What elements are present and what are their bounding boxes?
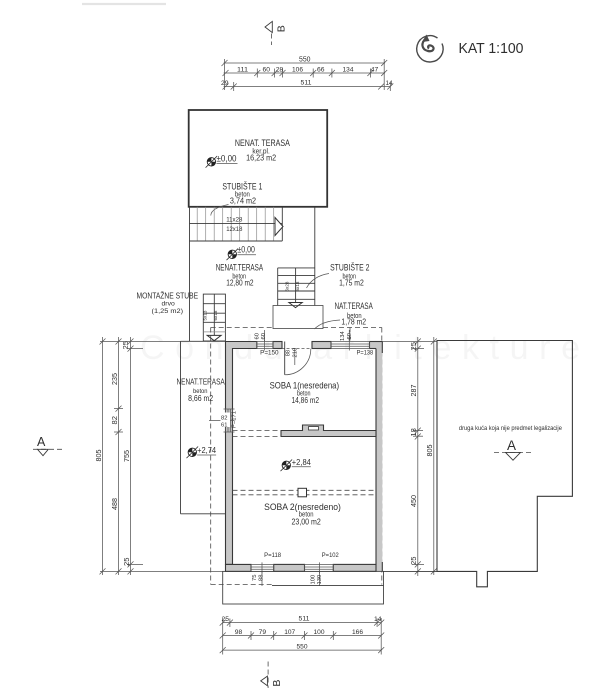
section marker A left [33,435,62,456]
svg-text:5x13: 5x13 [203,310,208,320]
svg-text:88: 88 [259,575,265,581]
door swing arc [285,349,311,375]
svg-text:8,66 m2: 8,66 m2 [188,394,213,403]
svg-text:82: 82 [221,415,227,421]
left dimension line 25 755 25 [128,337,134,575]
svg-text:18: 18 [411,428,418,437]
north symbol [417,35,443,63]
left wall window P=171 [209,409,235,432]
svg-text:16,23 m2: 16,23 m2 [246,153,276,163]
bottom dimension row 550 [220,647,385,653]
svg-text:134: 134 [343,67,354,74]
svg-text:12,80 m2: 12,80 m2 [226,278,254,288]
svg-text:A: A [507,438,516,453]
svg-text:210: 210 [293,348,299,358]
svg-text:P=138: P=138 [357,350,374,357]
svg-text:5x28: 5x28 [285,281,290,291]
level mark +-0,00 upper rect [206,153,238,168]
svg-text:+2,84: +2,84 [292,457,311,467]
svg-text:±0,00: ±0,00 [217,153,237,164]
svg-text:134: 134 [340,331,346,341]
svg-text:25: 25 [411,556,418,565]
svg-text:287: 287 [411,384,418,396]
svg-text:1,78 m2: 1,78 m2 [341,317,366,327]
lower left terrace NENAT.TERASA 8,66 [181,341,226,514]
svg-text:61: 61 [221,422,227,428]
svg-text:14: 14 [386,80,393,87]
staircase 1 direction arrow [275,218,283,236]
svg-text:511: 511 [299,616,310,623]
svg-text:88: 88 [285,350,291,356]
left dimension line 805 [100,337,106,575]
top dimension row 29 511 14 [223,82,394,91]
svg-text:25: 25 [222,616,230,623]
svg-text:25: 25 [411,342,418,351]
svg-text:550: 550 [299,57,311,64]
leader to NAT.TERASA [315,320,341,329]
svg-text:14,86 m2: 14,86 m2 [292,395,320,405]
svg-text:3,74 m2: 3,74 m2 [230,196,257,206]
leader arc to staircase 1 [211,205,229,216]
svg-text:488: 488 [112,498,119,510]
svg-text:B: B [276,25,288,32]
svg-text:66: 66 [317,67,325,74]
svg-text:28: 28 [276,67,284,74]
svg-text:NENAT.TERASA: NENAT.TERASA [177,377,226,387]
montazne stube down arrow [207,335,221,340]
montazne stube stairs [203,294,225,341]
svg-text:+2,74: +2,74 [197,445,216,455]
svg-text:1,75 m2: 1,75 m2 [339,277,364,287]
middle wall chimney opening [309,427,319,430]
svg-text:P=118: P=118 [264,552,281,559]
middle terrace right boundary [314,207,316,306]
section marker B top [265,21,288,45]
svg-text:100: 100 [311,575,317,585]
svg-text:NENAT. TERASA: NENAT. TERASA [235,138,290,149]
bottom dimension row 98 79 107 100 166 [220,631,385,640]
svg-text:805: 805 [96,449,103,461]
level mark +-0,00 middle terrace [227,244,257,261]
svg-text:47: 47 [371,67,379,74]
svg-text:P=150: P=150 [260,350,279,357]
small box on dashed line [298,488,307,497]
NAT.TERASA rect [273,306,323,329]
svg-text:130: 130 [317,575,323,585]
svg-text:79: 79 [259,629,267,636]
top dimension row 550 [222,59,388,90]
middle terrace left boundary [189,241,191,341]
main building bottom wall [226,564,377,571]
svg-text:A: A [37,435,46,449]
bottom dimension row 25 511 14 [220,618,385,655]
watermark [140,329,580,367]
right dim extension line top [383,341,437,343]
dashed outline around main building [211,328,382,585]
svg-text:166: 166 [352,629,363,636]
svg-text:NENAT.TERASA: NENAT.TERASA [216,263,264,274]
svg-text:14: 14 [374,616,382,623]
svg-text:23,00 m2: 23,00 m2 [292,517,322,527]
inner step line below building [272,585,384,587]
window P=150 width dims 60 60 [264,330,266,342]
left dimension line 235 82 488 [114,337,123,575]
window P=138 width dims 134 60 [348,330,350,342]
window P=138 top [331,340,370,351]
stubiste 2 stairs [278,268,315,307]
svg-text:P=102: P=102 [322,552,339,559]
svg-text:5x18: 5x18 [295,281,300,291]
svg-text:60: 60 [347,333,353,339]
svg-text:111: 111 [237,67,248,74]
upper terrace rectangle NENAT. TERASA 16,23 [189,110,328,207]
leader to stubiste 2 [307,274,330,289]
svg-text:106: 106 [292,67,303,74]
svg-text:60: 60 [254,333,260,339]
svg-text:11x28: 11x28 [226,217,243,224]
middle wall solid part [281,425,376,437]
main building top wall [226,342,383,572]
svg-text:25: 25 [124,557,131,566]
staircase 1 treads [197,207,274,241]
svg-text:755: 755 [124,450,131,462]
middle wall dashed part [233,431,282,437]
window P=118 bottom [251,562,274,573]
svg-text:±0,00: ±0,00 [237,244,255,255]
terrace rect below building [223,571,384,604]
svg-text:12x18: 12x18 [226,226,243,233]
svg-text:450: 450 [411,495,418,507]
scan streak top [82,3,166,5]
window P=102 bottom [305,562,334,573]
svg-text:60: 60 [261,333,267,339]
svg-text:60: 60 [263,67,271,74]
svg-text:550: 550 [297,644,308,651]
svg-text:drvo: drvo [162,301,176,308]
right building druga kuca outline [437,341,572,587]
svg-text:82: 82 [112,416,119,425]
right dimension line 25 287 18 450 25 [415,337,421,576]
svg-text:805: 805 [427,444,434,456]
svg-text:100: 100 [314,629,325,636]
svg-text:B: B [271,680,283,687]
right dimension line 805 [431,337,437,575]
svg-text:98: 98 [235,629,243,636]
door opening top [282,348,313,350]
svg-text:(1,25 m2): (1,25 m2) [152,308,184,315]
svg-text:75: 75 [252,575,258,581]
svg-text:107: 107 [284,629,295,636]
stubiste 2 down arrow [289,303,302,308]
SOBA 2 dashed ceiling lines [233,490,377,495]
level mark +2,74 lower left terrace [187,445,217,458]
door dims 88 210 [294,349,296,366]
svg-text:NAT.TERASA: NAT.TERASA [335,301,374,312]
window P=150 top [257,340,273,351]
svg-text:MONTAŽNE STUBE: MONTAŽNE STUBE [137,291,199,300]
level mark +2,84 [281,457,312,471]
svg-text:235: 235 [112,373,119,385]
svg-text:6x18: 6x18 [213,310,218,320]
svg-text:druga kuća koja nije predmet l: druga kuća koja nije predmet legalizacij… [459,425,562,432]
svg-text:KAT 1:100: KAT 1:100 [459,41,524,57]
dashed projection lines near window P138 [349,328,351,342]
svg-text:P=171: P=171 [232,411,238,428]
door leaf [284,342,286,375]
left dim extension lines [100,342,223,572]
svg-text:25: 25 [123,341,130,350]
top dimension row segments 111 60 28 106 66 134 47 [223,69,388,78]
ground line between buildings [383,570,437,572]
svg-text:511: 511 [301,80,312,87]
svg-text:29: 29 [221,80,229,87]
section marker B bottom [261,662,284,689]
staircase 1 outline [190,207,283,241]
svg-text:STUBIŠTE 2: STUBIŠTE 2 [330,263,369,274]
section marker A right [494,438,531,460]
